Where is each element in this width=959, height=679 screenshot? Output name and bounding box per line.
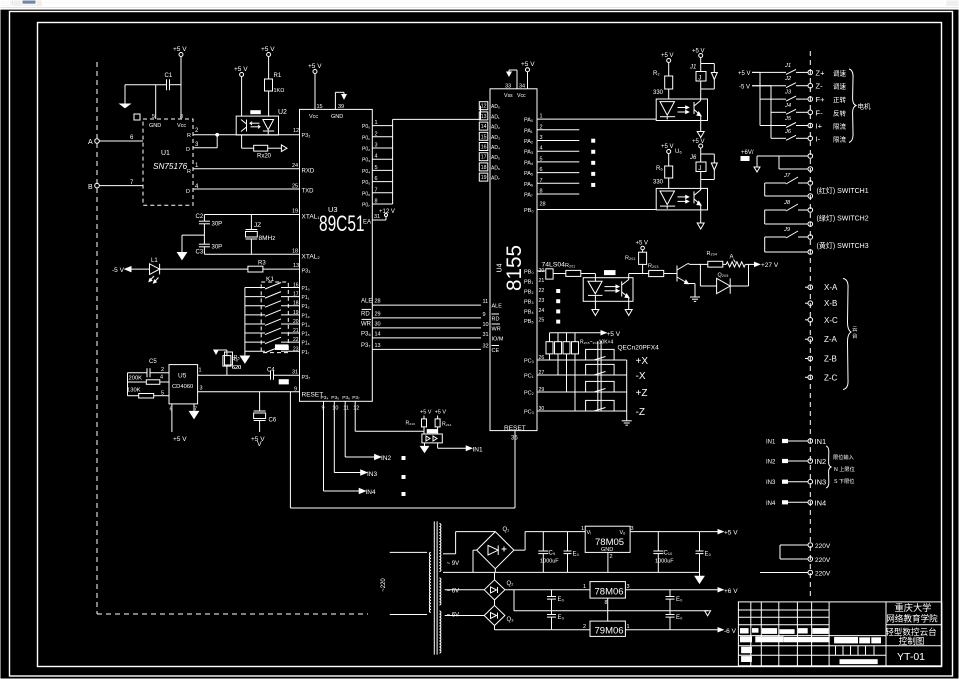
svg-text:14: 14: [481, 124, 487, 130]
svg-text:P0₅: P0₅: [362, 180, 370, 186]
svg-text:AD₅: AD₅: [491, 155, 500, 161]
svg-text:I-: I-: [816, 134, 821, 143]
MCU U3 89C51 body: [300, 109, 373, 401]
U4 left ctl labels: [492, 304, 504, 355]
stepper contact -X: [586, 364, 646, 382]
svg-text:+5 V: +5 V: [261, 46, 275, 53]
svg-text:E₀: E₀: [705, 552, 712, 558]
linkage line: [598, 341, 601, 411]
svg-text:P0₆: P0₆: [362, 191, 370, 197]
svg-text:13: 13: [375, 343, 381, 349]
svg-text:J2: J2: [784, 76, 792, 82]
PA continuation dots: [592, 139, 595, 186]
svg-text:IN2: IN2: [815, 457, 827, 466]
wire U1 pin3 junction: [193, 133, 219, 147]
svg-text:A: A: [88, 139, 93, 146]
svg-text:J8: J8: [783, 200, 791, 206]
svg-text:11: 11: [483, 299, 489, 305]
svg-text:P1₃: P1₃: [302, 313, 310, 319]
-5V feed for LED L1: [112, 267, 150, 274]
tap to Q2: [445, 589, 485, 591]
title texts: [885, 602, 938, 663]
svg-text:L1: L1: [151, 258, 158, 264]
svg-text:P0₀: P0₀: [362, 124, 370, 130]
svg-text:TXD: TXD: [302, 189, 315, 195]
relay contact J1 and terminal Z+: [752, 63, 846, 78]
svg-text:R: R: [187, 133, 191, 139]
svg-text:+5 V: +5 V: [420, 410, 432, 416]
ground at 0V rail end: [695, 572, 704, 583]
svg-text:8: 8: [375, 199, 378, 205]
svg-text:IN1: IN1: [766, 440, 776, 446]
node B terminal: [88, 180, 143, 191]
svg-text:R₂₁₁: R₂₁₁: [442, 422, 452, 428]
U4 pin PC0: [524, 355, 594, 365]
svg-text:8: 8: [180, 114, 183, 120]
svg-text:+5 V: +5 V: [692, 139, 705, 145]
transistor Q201: [677, 264, 700, 298]
svg-text:+5 V: +5 V: [435, 410, 447, 416]
relay channel 2: +5V, coil J6, zener: [689, 139, 717, 190]
svg-text:PB₀: PB₀: [524, 270, 534, 276]
control wire P3₆: [361, 331, 489, 338]
tap to Q3: [445, 615, 485, 617]
svg-text:35: 35: [511, 436, 518, 442]
svg-text:P1₇: P1₇: [302, 350, 310, 356]
inverter 74LS04: [542, 262, 566, 280]
IN1 optocoupler: [422, 430, 442, 443]
svg-text:J5: J5: [784, 116, 792, 122]
svg-text:C6: C6: [269, 418, 277, 424]
svg-text:+6V/: +6V/: [741, 150, 754, 156]
terminal X-C: [805, 316, 838, 325]
svg-text:+5 V: +5 V: [308, 63, 322, 70]
svg-text:反转: 反转: [833, 108, 847, 117]
svg-text:+5 V: +5 V: [173, 436, 187, 443]
U4 pin PA2: [524, 135, 579, 145]
svg-text:C₉: C₉: [549, 551, 556, 557]
svg-text:IO/M: IO/M: [492, 337, 504, 343]
U1 labels: [153, 150, 188, 171]
bridge rectifier Q3: [484, 600, 514, 626]
svg-text:+5 V: +5 V: [738, 71, 751, 77]
svg-text:PC₃: PC₃: [524, 410, 534, 416]
U4 pin PA1: [524, 124, 579, 134]
svg-text:Vcc: Vcc: [177, 123, 186, 129]
capacitor E0 b: [696, 532, 712, 573]
rail +5V out: [630, 530, 738, 537]
svg-text:J3: J3: [784, 90, 792, 96]
svg-text:PB₁: PB₁: [524, 280, 533, 286]
+5V feed to contacts: [738, 71, 760, 77]
resistor R204: [699, 251, 726, 267]
svg-text:Vcc: Vcc: [517, 93, 526, 99]
regulator 79M06: [495, 611, 737, 637]
contact feed bus: [760, 72, 771, 138]
svg-text:Z+: Z+: [816, 68, 826, 77]
key switch row 7: [245, 337, 310, 347]
key switch row 3: [245, 301, 310, 311]
svg-text:4: 4: [160, 375, 163, 381]
U4 pin PA7: [524, 189, 579, 199]
relay contact J6 and terminal I-: [771, 129, 847, 144]
svg-text:IN1: IN1: [473, 447, 484, 454]
svg-text:IN4: IN4: [815, 498, 827, 507]
svg-text:C1: C1: [165, 73, 173, 79]
key switch row 4: [245, 310, 310, 320]
svg-text:15: 15: [317, 104, 323, 110]
svg-text:调速: 调速: [833, 68, 847, 77]
svg-text:IN4: IN4: [766, 501, 776, 507]
rheostat to +27V: [726, 255, 779, 270]
svg-text:P1₂: P1₂: [302, 304, 310, 310]
svg-text:C5: C5: [149, 359, 157, 365]
svg-text:SN75176: SN75176: [153, 162, 188, 171]
svg-text:6: 6: [375, 176, 378, 182]
svg-text:-6 V: -6 V: [724, 628, 737, 635]
resistor array R205-208: [546, 333, 579, 411]
svg-text:2: 2: [375, 131, 378, 137]
U1 right pin labels: [186, 128, 199, 195]
svg-text:79M06: 79M06: [595, 626, 624, 637]
svg-text:1000uF: 1000uF: [540, 559, 559, 565]
U4 pin PC3: [524, 406, 594, 416]
svg-text:C4: C4: [267, 368, 275, 374]
svg-text:X-A: X-A: [824, 283, 838, 292]
svg-text:X-C: X-C: [824, 316, 838, 325]
svg-text:网络教育学院: 网络教育学院: [886, 613, 938, 624]
svg-text:+5 V: +5 V: [661, 144, 674, 150]
svg-text:XTAL₂: XTAL₂: [302, 254, 321, 261]
IN1 wire from U3: [355, 401, 424, 431]
svg-text:P3₇: P3₇: [352, 395, 360, 401]
wire U1 pin1 RXD: [193, 168, 300, 170]
control wire ALE: [361, 299, 488, 306]
svg-text:P0₇: P0₇: [362, 203, 370, 209]
IN4 wire: [324, 401, 377, 496]
optocoupler U6 channel2: [656, 188, 707, 210]
resistor R203: [648, 264, 677, 277]
svg-text:YT-01: YT-01: [897, 651, 925, 663]
svg-text:PC₂: PC₂: [524, 391, 534, 397]
svg-text:12: 12: [353, 406, 359, 412]
terminal X-A: [805, 283, 838, 292]
svg-text:A: A: [730, 255, 734, 261]
svg-text:P3₃: P3₃: [302, 269, 311, 275]
svg-text:R₆: R₆: [232, 357, 238, 363]
capacitor E0 a: [564, 532, 580, 573]
toolbar strip: [0, 0, 959, 9]
Q1 AC connections: [443, 532, 495, 573]
svg-text:15: 15: [481, 134, 487, 140]
key switch row 5: [245, 319, 310, 329]
svg-text:P0₃: P0₃: [362, 158, 370, 164]
U7 ground arrows: [592, 295, 632, 315]
svg-text:J7: J7: [783, 173, 791, 179]
svg-text:I+: I+: [816, 122, 823, 131]
svg-text:P0₄: P0₄: [362, 169, 370, 175]
svg-text:AD₁: AD₁: [491, 114, 500, 120]
svg-text:11: 11: [343, 406, 349, 412]
wire U1 pin2 to U3 P3: [193, 134, 300, 136]
rail 0V: [443, 571, 700, 573]
svg-text:R₂₀₁: R₂₀₁: [565, 263, 575, 269]
svg-text:1: 1: [583, 584, 586, 590]
svg-text:16: 16: [293, 283, 299, 289]
svg-text:1KΩ: 1KΩ: [274, 88, 285, 94]
svg-text:18: 18: [292, 249, 298, 255]
regulator 78M06: [505, 582, 738, 599]
U4 pin PB0/28: [524, 202, 656, 215]
keypad K1 dashed box: [261, 282, 288, 353]
svg-text:J6: J6: [784, 129, 792, 135]
svg-text:Q₂: Q₂: [507, 581, 515, 587]
ground at crystal caps: [178, 235, 205, 259]
svg-text:30P: 30P: [212, 222, 223, 228]
svg-text:RESET: RESET: [504, 425, 526, 432]
svg-text:RD: RD: [492, 317, 500, 323]
svg-text:220V: 220V: [815, 557, 831, 564]
svg-text:+6 V: +6 V: [724, 588, 738, 595]
svg-text:GND: GND: [601, 547, 613, 553]
svg-text:130K: 130K: [127, 388, 141, 394]
svg-text:34: 34: [519, 84, 525, 90]
stepper common bus to ground: [622, 360, 632, 425]
timer pin3 to RESET wire: [198, 386, 300, 392]
svg-text:J1: J1: [784, 63, 791, 69]
svg-text:9: 9: [483, 312, 486, 318]
capacitor E0 f: [666, 611, 684, 630]
+5V feed to resistor array: [550, 331, 621, 338]
marker square: [134, 114, 140, 120]
svg-text:P0₁: P0₁: [362, 135, 370, 141]
svg-text:J1: J1: [689, 65, 696, 71]
U3 name labels: [319, 205, 365, 236]
svg-text:S 下限位: S 下限位: [834, 477, 854, 485]
capacitor C1: [125, 73, 181, 90]
svg-text:AD₆: AD₆: [491, 165, 500, 171]
svg-text:5: 5: [152, 114, 155, 120]
U3 EA pin +12V: [363, 209, 395, 226]
svg-text:电机: 电机: [858, 102, 872, 111]
regulator 78M05: [581, 526, 634, 572]
svg-text:P1₆: P1₆: [302, 341, 310, 347]
svg-text:12: 12: [481, 104, 487, 110]
svg-text:330: 330: [653, 90, 664, 96]
capacitor C10 1000uF: [653, 532, 674, 573]
dashed boundary right: [809, 51, 811, 600]
svg-text:WR: WR: [492, 327, 501, 333]
U4 pin PA0: [524, 114, 656, 124]
stepper brace: [843, 278, 858, 389]
IN1 conditioning: pullup resistors: [406, 410, 452, 435]
key switch row 2: [245, 292, 310, 302]
svg-text:21: 21: [539, 278, 545, 284]
svg-text:E₀: E₀: [676, 597, 683, 603]
resistor R5 620: [225, 352, 242, 371]
svg-text:P1₅: P1₅: [302, 332, 310, 338]
U1 pin 8 Vcc: [177, 114, 186, 129]
svg-text:4: 4: [375, 154, 378, 160]
svg-text:IN3: IN3: [815, 478, 827, 487]
svg-text:AD₇: AD₇: [491, 176, 500, 182]
svg-text:P1₁: P1₁: [302, 295, 310, 301]
capacitor C4: [267, 368, 300, 384]
capacitor C6: [251, 392, 277, 443]
P0 bus vertical: [392, 119, 394, 204]
mains input ~220V: [381, 552, 427, 614]
svg-text:+5 V: +5 V: [724, 530, 738, 537]
reset net to U4 pin35: [290, 392, 515, 508]
control wire WR: [361, 319, 489, 328]
U4 pin PB1: [524, 278, 544, 286]
capacitor C5: [128, 359, 170, 377]
svg-text:R: R: [187, 169, 191, 175]
svg-text:P3₆: P3₆: [342, 395, 350, 401]
svg-text:~ 9V: ~ 9V: [447, 561, 460, 567]
svg-text:PB₂: PB₂: [524, 290, 533, 296]
svg-text:1: 1: [375, 120, 378, 126]
svg-text:+5 V: +5 V: [173, 46, 187, 53]
resistor R8 130K: [127, 388, 169, 399]
svg-text:89C51: 89C51: [319, 211, 365, 236]
svg-text:1: 1: [581, 526, 584, 532]
dashed boundary left: [96, 62, 98, 614]
svg-text:P3₄: P3₄: [321, 395, 329, 401]
svg-text:U2: U2: [278, 109, 287, 116]
svg-text:正转: 正转: [833, 95, 847, 104]
timer pin1 wire: [198, 368, 271, 376]
continuation dots: [402, 457, 405, 496]
timer pin6 +5V: [170, 404, 188, 443]
svg-text:22: 22: [293, 337, 299, 343]
svg-text:C3: C3: [196, 250, 204, 256]
IN1 ground: [421, 443, 429, 453]
svg-text:AD₃: AD₃: [491, 135, 500, 141]
power +5V rail for U1: [173, 46, 187, 119]
resistor Rx20 and output arrow: [242, 135, 287, 160]
svg-text:620: 620: [232, 365, 241, 371]
svg-text:PC₁: PC₁: [524, 374, 534, 380]
svg-text:限流: 限流: [833, 122, 847, 131]
U4 pin PB3: [524, 298, 544, 306]
svg-text:E₀: E₀: [558, 615, 565, 621]
input terminal IN4: [766, 498, 826, 507]
svg-text:GND: GND: [149, 123, 161, 129]
svg-text:5: 5: [375, 165, 378, 171]
svg-text:23: 23: [293, 346, 299, 352]
svg-text:10: 10: [332, 406, 338, 412]
svg-text:-5 V: -5 V: [739, 85, 750, 91]
svg-text:P0₂: P0₂: [362, 147, 370, 153]
svg-text:N 上限位: N 上限位: [834, 465, 855, 473]
wire U1 pin4 TXD: [193, 188, 300, 190]
U7 part blob: [605, 271, 616, 275]
svg-text:24: 24: [292, 163, 298, 169]
timer pin7 ground: [190, 404, 199, 419]
svg-text:限位输入: 限位输入: [833, 453, 854, 461]
U3 GND hook: [331, 92, 346, 120]
svg-text:19: 19: [292, 209, 298, 215]
svg-text:PB₃: PB₃: [524, 300, 534, 306]
svg-text:PA₃: PA₃: [524, 150, 533, 156]
svg-text:3: 3: [627, 584, 630, 590]
svg-text:(红灯) SWITCH1: (红灯) SWITCH1: [817, 186, 869, 195]
svg-text:30P: 30P: [212, 245, 223, 251]
stray V mark: [257, 441, 262, 448]
switch loop J7 SWITCH1: [765, 173, 869, 198]
svg-text:调速: 调速: [833, 82, 847, 91]
svg-text:D: D: [186, 147, 190, 153]
svg-text:-5 V: -5 V: [112, 267, 125, 274]
array labels: [580, 340, 659, 352]
U4 pin PA6: [524, 178, 579, 188]
+5V feed to R1: [261, 46, 275, 116]
svg-text:PA₀: PA₀: [524, 118, 533, 124]
svg-text:IN3: IN3: [766, 480, 776, 486]
svg-text:PA₆: PA₆: [524, 182, 533, 188]
IN2 wire: [345, 401, 391, 462]
svg-text:R₂₀₅~₂₀₈10K×4: R₂₀₅~₂₀₈10K×4: [580, 340, 613, 346]
svg-text:3: 3: [200, 386, 203, 392]
svg-text:+5 V: +5 V: [521, 61, 535, 68]
U3 bottom pin stubs: [321, 395, 361, 412]
key switch row 1: [245, 283, 310, 293]
resistor R7 200K: [128, 375, 170, 385]
stepper contact -Z: [586, 400, 645, 418]
svg-text:8: 8: [605, 600, 608, 606]
PB continuation dots: [557, 290, 560, 324]
svg-text:PA₅: PA₅: [524, 171, 533, 177]
U4 RESET pin35: [504, 425, 526, 442]
svg-text:XTAL₁: XTAL₁: [302, 214, 321, 221]
svg-text:E₀: E₀: [573, 552, 580, 558]
svg-text:1000uF: 1000uF: [655, 559, 674, 565]
svg-text:E₀: E₀: [676, 615, 683, 621]
timer U5 CD4060 body: [169, 365, 198, 404]
svg-text:IN4: IN4: [366, 489, 377, 496]
svg-text:PA₄: PA₄: [524, 160, 534, 166]
U4 pin PC2: [524, 387, 594, 397]
svg-text:X-B: X-B: [824, 299, 837, 308]
svg-text:C2: C2: [196, 214, 204, 220]
+5V to U3 Vcc: [308, 63, 323, 120]
U4 pin PA4: [524, 156, 579, 166]
U4 Vss GND hook: [504, 70, 517, 99]
+6V label: [741, 150, 754, 161]
svg-text:Vᵢ: Vᵢ: [587, 530, 592, 536]
svg-text:+5 V: +5 V: [607, 331, 621, 338]
svg-text:31: 31: [292, 370, 298, 376]
wire opto to base: [629, 273, 649, 275]
resistor R3: [160, 261, 300, 273]
-5V feed to contacts: [739, 85, 771, 91]
crystal JZ 8MHz: [246, 215, 276, 255]
svg-text:7: 7: [375, 187, 378, 193]
svg-text:17: 17: [293, 292, 299, 298]
svg-text:GND: GND: [331, 114, 343, 120]
svg-text:5: 5: [161, 391, 164, 397]
svg-text:IN2: IN2: [381, 455, 392, 462]
svg-text:1: 1: [199, 368, 202, 374]
svg-text:J: J: [698, 165, 701, 172]
relay contact J2 and terminal Z-: [752, 76, 846, 91]
svg-text:2: 2: [583, 624, 586, 630]
bridge rectifier Q1: [477, 527, 514, 569]
switch loop J8 SWITCH2: [765, 200, 869, 226]
stepper contact +X: [586, 349, 649, 367]
svg-text:重庆大学: 重庆大学: [895, 602, 932, 613]
